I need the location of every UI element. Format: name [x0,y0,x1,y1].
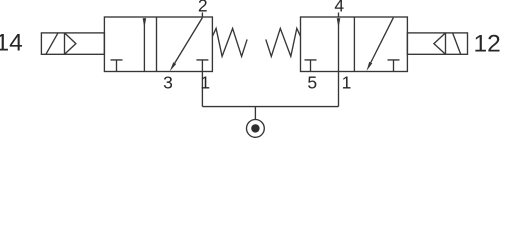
valve V2 position divider [353,17,355,72]
valve V2 blocked port T (right position) [388,60,400,72]
port 4 stub [338,13,340,18]
solenoid coil box (left actuator 14) [41,33,104,54]
supply stub wire [254,107,256,120]
solenoid coil diagonal [46,33,58,54]
svg-text:14: 14 [0,29,23,56]
solenoid coil diagonal (right) [453,33,461,54]
svg-text:4: 4 [334,0,344,15]
pressure source circle [247,119,265,137]
svg-text:3: 3 [163,73,173,93]
valve V1 position divider [156,17,158,72]
solenoid coil divider [64,33,66,54]
svg-text:5: 5 [307,73,317,93]
return spring of valve V2 [266,28,301,56]
svg-text:1: 1 [200,73,210,93]
port 2 stub [201,13,203,18]
pilot triangle (left actuator) [65,33,76,54]
manifold wire [202,106,338,108]
solenoid coil divider (right) [445,33,447,54]
valve V2 flow path (right position) [371,18,394,63]
return spring of valve V1 [212,28,247,56]
valve V1 flow path 2-3 (right position) [175,18,203,64]
svg-text:1: 1 [342,73,352,93]
valve V2 blocked port T (left position) [305,60,317,72]
valve V2 body [301,17,408,72]
pressure source dot [251,124,259,132]
svg-text:2: 2 [198,0,208,15]
valve V2 flow arrow 1-4 (left position) [338,18,340,71]
valve V1 blocked port T (left position) [111,60,123,72]
wire from V1 port 1 down [201,72,203,107]
pilot triangle (right actuator) [434,33,446,54]
wire from V2 port 1 down [338,72,340,107]
svg-text:12: 12 [474,31,501,58]
solenoid coil box (right actuator 12) [407,33,467,54]
valve V1 blocked port T (right position) [196,60,208,72]
valve V1 flow arrow 1-2 (left position) [143,18,145,71]
valve V1 body [104,17,212,72]
